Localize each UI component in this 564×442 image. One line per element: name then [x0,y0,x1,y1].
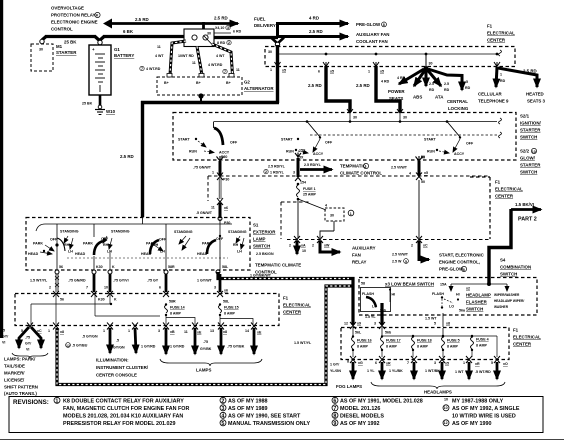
svg-text:x8: x8 [223,330,227,334]
svg-text:x6: x6 [224,289,228,293]
svg-text:2: 2 [221,398,224,404]
svg-text:.75: .75 [203,340,208,344]
svg-text:11: 11 [184,330,188,334]
svg-text:B+: B+ [226,81,231,85]
svg-text:HEAD: HEAD [28,252,39,256]
svg-text:FLASH: FLASH [432,292,444,296]
svg-text:3: 3 [214,286,216,290]
svg-text:x9: x9 [357,322,361,326]
svg-text:1: 1 [55,398,58,404]
svg-text:RH: RH [233,243,239,247]
svg-text:F1: F1 [487,24,493,29]
svg-text:RD: RD [444,88,450,92]
svg-text:PARK: PARK [83,242,93,246]
svg-text:1 YL/BK: 1 YL/BK [389,369,403,373]
svg-text:AS OF MY 1991, MODEL 201.028: AS OF MY 1991, MODEL 201.028 [340,399,423,405]
node connector 2 xW [312,236,330,248]
svg-text:G1: G1 [114,47,120,52]
label S2/1 ignition starter switch [520,114,542,140]
svg-text:2: 2 [312,244,314,248]
relay K1 auxiliary fan [325,204,354,222]
svg-text:7: 7 [224,70,226,74]
svg-text:.75 GN/WT: .75 GN/WT [193,166,212,170]
switch lamp group 3 [141,224,193,256]
svg-text:1: 1 [212,171,214,175]
wire diagonal to relay K1 [298,199,326,210]
svg-text:EXTERIOR: EXTERIOR [253,230,276,235]
fuse 15 [219,303,254,324]
brace lamps [160,359,262,366]
wire arrows illumination [66,328,136,353]
label lamps park tail side [4,357,38,397]
svg-text:15X: 15X [299,149,306,153]
wire main red bus down left [120,45,279,217]
wire double P30 down [219,178,221,199]
wire hatched alternator left B+ [170,41,186,75]
fuse 17 [381,335,401,357]
svg-text:F1: F1 [513,328,519,333]
svg-text:8 AMP: 8 AMP [357,345,368,349]
svg-text:8: 8 [347,360,349,364]
node connector 11 x6 [211,198,228,210]
node connector 2 xC [411,236,428,248]
svg-text:WASHER: WASHER [494,305,509,309]
svg-text:LAMPS: PARK/: LAMPS: PARK/ [4,357,36,362]
svg-text:13: 13 [210,329,214,333]
svg-text:2: 2 [265,170,267,174]
svg-text:.5 GN/WT: .5 GN/WT [196,211,213,215]
svg-text:1.5 YL: 1.5 YL [365,315,376,319]
node connectors left F1 top [53,291,230,304]
svg-text:10WT RD: 10WT RD [178,54,194,58]
svg-text:LH: LH [160,250,165,254]
svg-text:2: 2 [49,286,51,290]
svg-text:2.5 RD: 2.5 RD [214,16,228,21]
wire fuse1 down [297,199,299,238]
svg-text:xC: xC [423,244,428,248]
svg-text:30: 30 [353,116,357,120]
svg-text:PROTECTION RELAY: PROTECTION RELAY [51,13,96,18]
svg-text:ACCY: ACCY [313,152,324,156]
svg-text:CENTER: CENTER [495,194,514,199]
label 56 58R 58L terminals [59,265,229,269]
svg-text:S2/2: S2/2 [520,149,530,154]
low beam / headlamp flasher switch box [359,278,537,316]
svg-text:LH: LH [107,250,112,254]
svg-text:50: 50 [421,180,425,184]
svg-text:PARK: PARK [33,242,43,246]
wire relay K1 elbow to xW [320,231,334,238]
node S4 junction [451,282,507,291]
svg-text:2.5: 2.5 [429,82,434,86]
svg-text:RUN: RUN [427,150,435,154]
svg-text:ELECTRICAL: ELECTRICAL [513,335,541,340]
svg-text:.5 GY/BU: .5 GY/BU [72,344,88,348]
wire 2.5 RD to ignition switch 30 right [356,66,400,112]
svg-text:1: 1 [48,329,50,333]
wire arrow tempmatic climate control [300,163,382,175]
svg-text:PART 2: PART 2 [518,217,537,223]
svg-text:2.5 RD: 2.5 RD [120,154,134,159]
svg-text:K30: K30 [98,298,105,302]
svg-text:3: 3 [158,329,160,333]
node connector 15X fuse1 top [295,149,306,182]
svg-text:OVERVOLTAGE: OVERVOLTAGE [51,6,84,11]
svg-text:1 GY/: 1 GY/ [330,363,339,367]
switch lamp group 2 [75,224,130,270]
svg-text:58R: 58R [168,265,175,269]
wire 2.5 RD to ignition switch 30 left [308,66,350,112]
svg-text:1 YL: 1 YL [367,369,375,373]
wire arrow tempmatic climate lower [255,241,306,275]
wire F1 internal bus [278,50,502,56]
svg-text:STARTER: STARTER [520,163,541,168]
svg-text:OFF: OFF [325,141,333,145]
fuse 14 [165,303,196,324]
wire arrow 1.5 BK/VI part2 [511,202,541,223]
wire .75 GY [147,274,166,292]
brace headlamps [371,382,505,389]
svg-text:AUXILIARY: AUXILIARY [352,246,376,251]
svg-text:IGNITION/: IGNITION/ [520,121,542,126]
label revisions column 4 [443,398,520,428]
ground W10 [95,105,116,114]
svg-text:58L: 58L [222,265,229,269]
svg-text:4: 4 [221,413,224,419]
svg-text:58R: 58R [169,300,176,304]
fuse 4 [471,335,489,357]
svg-text:.75 GY/VI: .75 GY/VI [113,279,129,283]
svg-text:1: 1 [270,68,272,72]
svg-text:6: 6 [375,361,377,365]
svg-text:2: 2 [365,165,367,169]
svg-text:RH: RH [64,243,70,247]
node x8 hatched connector [0,0,1,1]
wire S4 combination switch feed [489,209,511,283]
fuse F1 fuse 1 [297,183,317,201]
svg-text:xW: xW [324,244,330,248]
wire S1 switch outputs [56,236,220,270]
svg-text:30: 30 [330,214,334,218]
svg-text:2.5 VI/WT: 2.5 VI/WT [391,166,408,170]
svg-text:6: 6 [318,70,320,74]
wire 1.5 WT flasher output [425,313,450,327]
label overvoltage protection relay K1 [51,6,100,32]
svg-text:SWITCH: SWITCH [466,307,483,312]
node connector 1 x5 [368,62,384,74]
svg-text:CENTRAL: CENTRAL [447,99,468,104]
svg-text:30: 30 [268,50,272,54]
node connector 3 x9 [374,322,385,330]
svg-text:ELECTRICAL: ELECTRICAL [283,303,311,308]
svg-text:CLIMATE CONTROL: CLIMATE CONTROL [340,171,382,176]
label fuel delivery [254,17,276,29]
wire arrow central locking [428,69,471,111]
svg-text:SWITCH: SWITCH [520,135,537,140]
wire arrow fog lamp [330,362,353,379]
wire arrow start electronic engine control [392,241,485,272]
svg-text:OFF: OFF [230,141,238,145]
switch ignition 1 [178,122,238,160]
svg-text:TAIL/SIDE: TAIL/SIDE [4,364,25,369]
svg-text:4 WT.RD: 4 WT.RD [208,63,223,67]
svg-text:AUXILIARY FAN: AUXILIARY FAN [356,32,389,37]
node connector 1 cellular [494,62,500,67]
svg-text:8 AMP: 8 AMP [224,312,235,316]
node connector 50 glow output [391,156,428,185]
S1 exterior lamp switch box [26,218,276,271]
svg-text:xG: xG [358,361,363,365]
svg-text:ENGINE CONTROL,: ENGINE CONTROL, [439,260,480,265]
svg-text:58L: 58L [223,300,230,304]
svg-text:STANDING: STANDING [174,230,193,234]
switch ignition 2 [281,122,333,160]
label revisions column 2 [220,397,310,427]
svg-text:2.5: 2.5 [444,82,449,86]
svg-text:POWER: POWER [388,89,405,94]
revisions box [9,397,543,433]
F1 part2 dashed row P30 [208,176,490,201]
svg-text:5: 5 [491,361,493,365]
svg-text:5: 5 [405,260,407,264]
svg-text:11: 11 [157,45,161,49]
svg-text:REVISIONS:: REVISIONS: [13,399,49,406]
svg-text:1.5 WT/YL: 1.5 WT/YL [30,279,48,283]
svg-text:2.5 RD/YL: 2.5 RD/YL [268,165,286,169]
svg-text:MARKER/: MARKER/ [4,371,25,376]
svg-text:RUN: RUN [189,150,197,154]
svg-text:MANUAL TRANSMISSION ONLY: MANUAL TRANSMISSION ONLY [228,421,310,427]
svg-text:.75 GY: .75 GY [147,279,159,283]
svg-text:8 AMP: 8 AMP [447,345,458,349]
svg-text:56a: 56a [459,309,466,313]
label alternator wires [140,45,240,74]
wire arrows lamps park tail [2,327,41,352]
svg-text:CELLULAR: CELLULAR [478,92,502,97]
svg-text:3: 3 [434,361,436,365]
wire 2.5 RD auxiliary fan arrow [277,29,389,44]
svg-text:4 RD: 4 RD [309,16,319,21]
svg-text:AS OF MY 1990, SEE START: AS OF MY 1990, SEE START [228,414,301,420]
svg-text:1: 1 [103,329,105,333]
wire hatched alternator right B+ [212,44,233,75]
svg-text:2.5 W: 2.5 W [392,260,402,264]
svg-text:CENTER: CENTER [487,38,506,43]
svg-text:1: 1 [368,70,370,74]
wire arrow ABS [413,70,425,100]
wire arrow ATA [428,70,450,100]
svg-text:GY/BK: GY/BK [200,347,212,351]
svg-text:W10: W10 [106,109,116,114]
svg-text:7: 7 [86,286,88,290]
svg-text:(AUTO TRANS.): (AUTO TRANS.) [4,391,37,396]
svg-text:STANDING: STANDING [60,230,79,234]
wire 2.5 RD main feed to fuel delivery junction [214,36,278,39]
svg-text:HEADLAMP WIPER/: HEADLAMP WIPER/ [494,299,524,303]
svg-text:56b: 56b [385,331,392,335]
svg-text:K: K [114,298,117,302]
svg-text:8 RD: 8 RD [217,41,226,45]
svg-text:LAMPS: LAMPS [196,368,211,373]
svg-text:12: 12 [66,344,70,348]
svg-text:+: + [92,47,95,52]
wire alternator to main bus [200,96,202,103]
svg-text:VI: VI [26,348,29,352]
svg-text:25 BK: 25 BK [82,102,93,106]
svg-text:FUEL: FUEL [254,17,266,22]
svg-text:GY/: GY/ [25,342,31,346]
svg-text:6: 6 [333,398,336,404]
svg-text:FUSE 1: FUSE 1 [303,187,316,191]
svg-text:30: 30 [403,116,407,120]
svg-text:HI: HI [392,293,396,297]
label 8 RD [217,40,231,45]
svg-text:K8 DOUBLE CONTACT RELAY FOR AU: K8 DOUBLE CONTACT RELAY FOR AUXILIARY [63,399,184,405]
node connector 1 x5 fuel [270,62,286,73]
svg-text:X4,10: X4,10 [215,26,224,30]
svg-text:ATA: ATA [435,95,444,100]
label right F1 bottom pins [347,360,508,367]
svg-text:GLOW/: GLOW/ [520,156,536,161]
svg-text:TEMPMATIC CLIMATE: TEMPMATIC CLIMATE [255,263,301,268]
svg-text:58: 58 [361,282,365,286]
label S2/2 glow starter switch [520,148,541,174]
svg-text:F1: F1 [283,296,289,301]
node fuel delivery connector [275,42,279,46]
svg-text:ALTERNATOR: ALTERNATOR [244,86,274,91]
svg-text:CENTER: CENTER [283,310,302,315]
svg-text:FAN: FAN [352,253,361,258]
svg-text:30: 30 [207,32,211,36]
label X4,10 / 6 RD [214,25,242,33]
svg-text:RELAY: RELAY [352,260,367,265]
svg-text:xB: xB [170,330,175,334]
svg-text:.5 WT/RD: .5 WT/RD [475,370,491,374]
svg-text:154: 154 [300,181,306,185]
svg-text:PRE-GLOW: PRE-GLOW [356,22,381,27]
svg-text:5: 5 [221,421,224,427]
wire 2.5 RD arrow to overvoltage relay [103,17,204,29]
svg-text:DELIVERY: DELIVERY [254,23,276,28]
svg-text:2.5 RD/YL: 2.5 RD/YL [304,163,322,167]
svg-text:FLASHER: FLASHER [466,300,488,305]
node connectors left F1 bottom [27,323,257,330]
svg-text:ACCY: ACCY [454,152,465,156]
switch headlamp flasher [432,292,466,313]
svg-text:HEADLAMP: HEADLAMP [466,293,491,298]
label RD/YL wires [264,163,322,185]
label revisions column 3 [332,397,423,427]
border bottom line [0,439,564,441]
svg-text:SWITCH: SWITCH [500,272,517,277]
node battery positive [98,40,102,44]
svg-text:RD: RD [429,88,435,92]
wire low beam LO output [365,303,382,325]
svg-text:ILLUMINATION:: ILLUMINATION: [96,358,129,363]
svg-text:x5: x5 [282,69,286,73]
F1 part2 box right [470,177,523,239]
wire hatched return to x8 [57,286,353,385]
label x2 headlamp flasher switch [466,287,491,312]
wire 6 BK battery bus [42,29,184,45]
svg-text:5: 5 [434,322,436,326]
svg-text:x2: x2 [466,287,470,291]
svg-text:9: 9 [333,421,336,427]
svg-text:1 GY/RD: 1 GY/RD [170,345,185,349]
svg-text:STARTER: STARTER [520,128,541,133]
F1 part2 dashed row xA xW xC [281,202,490,240]
wire 1 GY/BK/WT hatched to low beam switch [218,272,353,325]
svg-text:AS OF MY 1988: AS OF MY 1988 [228,399,267,405]
wire ignition internal bus [214,113,502,124]
svg-text:OFF: OFF [466,142,474,146]
svg-text:4 WT: 4 WT [216,54,225,58]
svg-text:CENTER: CENTER [513,342,532,347]
svg-text:3: 3 [293,171,295,175]
node connector 12 x9 [344,322,361,330]
S2 ignition starter switch box [173,113,516,161]
svg-text:2.5 RD: 2.5 RD [356,83,370,88]
label left F1 bottom pins [21,329,262,335]
alternator G2 box [157,74,274,96]
wire arrow power seats [381,69,424,101]
switch lamp group 4 [197,230,247,256]
svg-text:6 RD: 6 RD [233,30,242,34]
switch glow starter S2/2 [421,122,474,160]
label S4 combination switch [500,258,531,277]
starter M1 box [31,44,77,71]
svg-text:S4: S4 [500,258,506,263]
svg-text:STARTER: STARTER [56,50,77,55]
svg-text:YL/GN: YL/GN [330,369,341,373]
svg-text:ELECTRONIC ENGINE: ELECTRONIC ENGINE [51,20,98,25]
svg-text:COMBINATION: COMBINATION [500,265,531,270]
svg-text:12: 12 [444,421,448,425]
svg-text:6 BK: 6 BK [123,29,134,34]
svg-text:xE: xE [257,331,262,335]
svg-text:1: 1 [500,73,502,77]
svg-text:1 WT/BK: 1 WT/BK [425,369,440,373]
svg-text:FUSE 17: FUSE 17 [386,339,401,343]
svg-text:AS OF MY 1989: AS OF MY 1989 [228,406,267,412]
svg-text:WIPER/WASHER: WIPER/WASHER [494,293,520,297]
svg-text:START: START [178,138,191,142]
svg-text:x8: x8 [446,322,450,326]
svg-text:GY/: GY/ [2,335,8,339]
svg-text:HEAD: HEAD [75,252,86,256]
svg-text:START, ELECTRONIC: START, ELECTRONIC [439,253,485,258]
svg-text:COOLANT FAN: COOLANT FAN [356,39,388,44]
node connector P30 ignition output [193,156,224,175]
svg-text:10: 10 [532,150,536,154]
node connector 6 x5 [318,62,334,74]
node connectors right F1 bottom [350,356,500,363]
svg-text:1: 1 [350,212,352,216]
svg-text:1 WT: 1 WT [455,370,464,374]
label revisions column 1 [54,397,189,427]
wire arrow heated seats [498,68,546,104]
svg-text:GY/GN: GY/GN [113,346,125,350]
wire 2.5 RD arrow right from relay top [204,16,239,30]
svg-text:xR: xR [475,362,480,366]
svg-text:RUN: RUN [286,150,294,154]
svg-text:S2/1: S2/1 [520,114,530,119]
svg-text:LH: LH [68,250,73,254]
svg-text:K30: K30 [96,265,103,269]
svg-text:STANDING: STANDING [228,230,247,234]
svg-text:DIESEL MODELS: DIESEL MODELS [340,414,384,420]
wire 1.5 WT/YL twisted [30,274,59,292]
